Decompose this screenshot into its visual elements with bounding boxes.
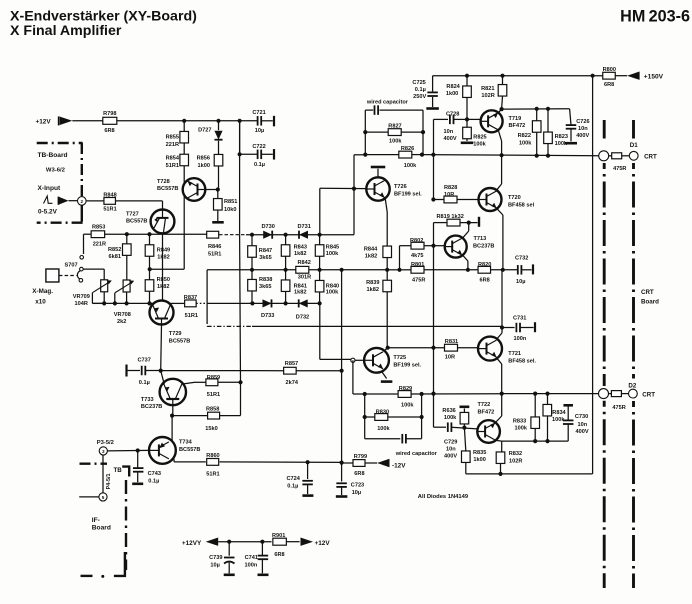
svg-text:400V: 400V xyxy=(576,133,589,139)
svg-text:100k: 100k xyxy=(326,290,339,296)
svg-text:BC557B: BC557B xyxy=(126,218,147,224)
svg-text:6R8: 6R8 xyxy=(274,552,284,558)
svg-text:102R: 102R xyxy=(481,93,494,99)
svg-text:R821: R821 xyxy=(481,86,494,92)
svg-text:HM 203-6: HM 203-6 xyxy=(620,8,690,26)
svg-text:X-Input: X-Input xyxy=(38,185,62,192)
svg-text:D731: D731 xyxy=(298,224,311,230)
svg-text:100n: 100n xyxy=(514,336,527,342)
svg-text:10µ: 10µ xyxy=(255,128,264,134)
svg-text:R833: R833 xyxy=(513,418,526,424)
svg-text:3: 3 xyxy=(102,449,105,454)
svg-text:T722: T722 xyxy=(478,402,491,408)
svg-text:R834: R834 xyxy=(552,410,566,416)
svg-text:T720: T720 xyxy=(508,195,521,201)
svg-text:6R8: 6R8 xyxy=(604,82,614,88)
svg-text:X Final Amplifier: X Final Amplifier xyxy=(10,23,122,39)
svg-text:R798: R798 xyxy=(103,111,116,117)
svg-text:R829: R829 xyxy=(399,386,412,392)
svg-text:R838: R838 xyxy=(259,277,272,283)
svg-text:1k00: 1k00 xyxy=(473,457,485,463)
svg-text:BF199 sel.: BF199 sel. xyxy=(393,363,421,369)
svg-text:T725: T725 xyxy=(393,355,406,361)
svg-text:R841: R841 xyxy=(294,283,307,289)
svg-text:475R: 475R xyxy=(412,277,425,283)
svg-text:R802: R802 xyxy=(410,238,423,244)
svg-text:BF458 sel: BF458 sel xyxy=(508,203,535,209)
svg-text:6R8: 6R8 xyxy=(354,471,364,477)
svg-text:10k0: 10k0 xyxy=(224,207,236,213)
svg-text:R822: R822 xyxy=(518,133,531,139)
svg-text:T713: T713 xyxy=(474,236,487,242)
svg-text:C722: C722 xyxy=(252,144,265,150)
svg-text:R831: R831 xyxy=(445,339,458,345)
svg-text:1k82: 1k82 xyxy=(157,255,169,261)
svg-text:475R: 475R xyxy=(612,405,625,411)
svg-text:100k: 100k xyxy=(404,163,417,169)
svg-text:C732: C732 xyxy=(515,256,528,262)
svg-text:R825: R825 xyxy=(473,135,486,141)
svg-text:10µ: 10µ xyxy=(210,563,219,569)
svg-text:+12VY: +12VY xyxy=(182,540,202,547)
svg-text:51R1: 51R1 xyxy=(185,313,198,319)
svg-text:10R: 10R xyxy=(445,355,455,361)
svg-text:104R: 104R xyxy=(75,301,88,307)
svg-text:0.1µ: 0.1µ xyxy=(287,484,298,490)
svg-text:R820: R820 xyxy=(478,262,491,268)
svg-text:BC237B: BC237B xyxy=(141,404,162,410)
svg-text:2: 2 xyxy=(81,199,84,204)
svg-text:W3-6/2: W3-6/2 xyxy=(46,167,66,173)
svg-text:C723: C723 xyxy=(351,482,364,488)
svg-text:10R: 10R xyxy=(444,192,454,198)
svg-text:51R1: 51R1 xyxy=(208,252,221,258)
svg-text:1k82: 1k82 xyxy=(365,254,377,260)
svg-text:15k0: 15k0 xyxy=(205,426,217,432)
svg-text:T729: T729 xyxy=(169,331,182,337)
svg-text:TB-Board: TB-Board xyxy=(38,152,68,159)
svg-text:wired capacitor: wired capacitor xyxy=(395,451,438,457)
svg-text:0.1µ: 0.1µ xyxy=(254,162,265,168)
svg-text:D727: D727 xyxy=(198,128,211,134)
svg-text:C730: C730 xyxy=(575,414,588,420)
svg-text:T726: T726 xyxy=(394,184,407,190)
svg-text:1k82: 1k82 xyxy=(367,287,379,293)
svg-text:T719: T719 xyxy=(509,116,522,122)
svg-text:100k: 100k xyxy=(401,402,414,408)
svg-text:Board: Board xyxy=(641,298,659,305)
svg-text:R849: R849 xyxy=(157,247,170,253)
svg-text:R801: R801 xyxy=(411,262,424,268)
svg-text:T733: T733 xyxy=(141,397,154,403)
svg-text:R636: R636 xyxy=(442,408,455,414)
svg-text:10µ: 10µ xyxy=(352,490,361,496)
svg-text:C729: C729 xyxy=(444,439,457,445)
svg-text:R859: R859 xyxy=(207,375,220,381)
svg-text:BF458 sel.: BF458 sel. xyxy=(508,359,536,365)
svg-text:TB: TB xyxy=(114,467,123,474)
svg-text:10n: 10n xyxy=(444,129,454,135)
svg-text:51R1: 51R1 xyxy=(166,163,179,169)
svg-text:R853: R853 xyxy=(92,224,105,230)
svg-text:4k75: 4k75 xyxy=(411,253,423,259)
svg-text:1k00: 1k00 xyxy=(198,163,210,169)
svg-text:R843: R843 xyxy=(294,245,307,251)
svg-text:C721: C721 xyxy=(252,110,265,116)
svg-text:10n: 10n xyxy=(578,422,588,428)
svg-text:R827: R827 xyxy=(388,123,401,129)
svg-text:R823: R823 xyxy=(555,134,568,140)
svg-text:R832: R832 xyxy=(509,451,522,457)
svg-text:D1: D1 xyxy=(630,142,638,149)
svg-text:BF472: BF472 xyxy=(478,409,495,415)
svg-text:3k65: 3k65 xyxy=(259,255,271,261)
svg-text:R852: R852 xyxy=(108,247,121,253)
svg-text:10µ: 10µ xyxy=(516,279,525,285)
svg-text:R842: R842 xyxy=(298,260,311,266)
svg-text:6k81: 6k81 xyxy=(109,254,121,260)
svg-text:6R8: 6R8 xyxy=(104,128,114,134)
svg-text:T734: T734 xyxy=(179,440,193,446)
svg-text:T728: T728 xyxy=(157,179,170,185)
svg-text:R826: R826 xyxy=(401,146,414,152)
svg-text:IF-: IF- xyxy=(92,517,100,524)
svg-text:400V: 400V xyxy=(444,453,457,459)
svg-text:CRT: CRT xyxy=(644,154,657,161)
svg-text:R847: R847 xyxy=(259,248,272,254)
svg-text:51R1: 51R1 xyxy=(207,392,220,398)
svg-text:-12V: -12V xyxy=(392,462,406,469)
svg-text:221R: 221R xyxy=(166,142,179,148)
svg-text:C725: C725 xyxy=(412,80,425,86)
svg-text:X-Mag.: X-Mag. xyxy=(32,288,53,295)
svg-text:221R: 221R xyxy=(93,242,106,248)
svg-text:2k74: 2k74 xyxy=(286,380,299,386)
svg-text:R830: R830 xyxy=(376,409,389,415)
svg-text:R844: R844 xyxy=(364,246,378,252)
svg-text:301R: 301R xyxy=(298,275,311,281)
svg-text:R850: R850 xyxy=(157,277,170,283)
svg-text:100k: 100k xyxy=(515,426,528,432)
svg-text:1k82: 1k82 xyxy=(294,290,306,296)
svg-text:6R8: 6R8 xyxy=(480,277,490,283)
svg-text:102R: 102R xyxy=(509,458,522,464)
svg-text:100n: 100n xyxy=(245,563,258,569)
svg-text:0.1µ: 0.1µ xyxy=(148,478,159,484)
svg-text:D733: D733 xyxy=(261,313,274,319)
svg-text:100k: 100k xyxy=(473,142,486,148)
svg-text:C739: C739 xyxy=(209,555,222,561)
svg-text:S707: S707 xyxy=(65,262,78,268)
svg-text:1k82: 1k82 xyxy=(157,284,169,290)
svg-text:C726: C726 xyxy=(576,119,589,125)
svg-text:D2: D2 xyxy=(628,382,636,389)
svg-text:C743: C743 xyxy=(148,471,161,477)
svg-text:R824: R824 xyxy=(446,84,460,90)
svg-text:100k: 100k xyxy=(377,426,390,432)
svg-text:100k: 100k xyxy=(519,140,532,146)
svg-text:R840: R840 xyxy=(326,283,339,289)
svg-text:D730: D730 xyxy=(262,224,275,230)
svg-text:475R: 475R xyxy=(613,166,626,172)
svg-text:CRT: CRT xyxy=(641,289,654,296)
svg-text:R800: R800 xyxy=(603,67,616,73)
svg-text:R860: R860 xyxy=(206,453,219,459)
svg-text:BC557B: BC557B xyxy=(157,186,178,192)
svg-text:1k00: 1k00 xyxy=(446,91,458,97)
svg-text:BF199 sel.: BF199 sel. xyxy=(394,191,422,197)
svg-text:100k: 100k xyxy=(444,415,457,421)
svg-text:C731: C731 xyxy=(513,316,526,322)
svg-text:1k82: 1k82 xyxy=(294,251,306,257)
svg-text:VR709: VR709 xyxy=(73,294,90,300)
svg-text:R839: R839 xyxy=(366,280,379,286)
svg-text:100k: 100k xyxy=(389,138,402,144)
svg-text:10n: 10n xyxy=(446,446,456,452)
svg-text:R828: R828 xyxy=(444,185,457,191)
svg-text:R856: R856 xyxy=(197,155,210,161)
svg-text:+150V: +150V xyxy=(644,74,664,81)
svg-text:T721: T721 xyxy=(508,351,521,357)
svg-text:R851: R851 xyxy=(224,199,237,205)
svg-text:0.1µ: 0.1µ xyxy=(139,380,150,386)
svg-text:R835: R835 xyxy=(473,450,486,456)
svg-text:x10: x10 xyxy=(35,298,46,305)
svg-text:VR708: VR708 xyxy=(114,312,131,318)
svg-text:2k2: 2k2 xyxy=(117,319,126,325)
svg-text:R854: R854 xyxy=(166,155,180,161)
svg-text:C728: C728 xyxy=(446,111,459,117)
svg-text:100k: 100k xyxy=(326,251,339,257)
svg-text:R799: R799 xyxy=(354,454,367,460)
svg-text:R848: R848 xyxy=(103,193,116,199)
svg-text:R855: R855 xyxy=(166,134,179,140)
svg-text:+12V: +12V xyxy=(315,540,331,547)
svg-text:250V: 250V xyxy=(413,94,426,100)
svg-text:10n: 10n xyxy=(578,126,588,132)
svg-text:R845: R845 xyxy=(326,245,339,251)
svg-text:0-5.2V: 0-5.2V xyxy=(38,208,58,215)
svg-text:R837: R837 xyxy=(184,295,197,301)
svg-text:C724: C724 xyxy=(287,476,301,482)
svg-text:X-Endverstärker (XY-Board): X-Endverstärker (XY-Board) xyxy=(10,8,197,24)
svg-text:C737: C737 xyxy=(138,358,151,364)
svg-text:R858: R858 xyxy=(206,407,219,413)
svg-text:D732: D732 xyxy=(296,314,309,320)
svg-text:T727: T727 xyxy=(126,211,139,217)
svg-text:R901: R901 xyxy=(272,533,285,539)
svg-text:CRT: CRT xyxy=(642,392,655,399)
svg-text:0.1µ: 0.1µ xyxy=(415,87,426,93)
svg-text:R846: R846 xyxy=(208,244,221,250)
svg-text:wired capacitor: wired capacitor xyxy=(366,99,409,105)
svg-text:+12V: +12V xyxy=(36,119,52,126)
svg-text:400V: 400V xyxy=(576,429,589,435)
svg-text:C741: C741 xyxy=(245,555,258,561)
svg-text:Board: Board xyxy=(92,524,111,531)
svg-text:3k65: 3k65 xyxy=(259,284,271,290)
svg-text:5: 5 xyxy=(102,495,105,500)
svg-text:R857: R857 xyxy=(285,361,298,367)
svg-text:BC557B: BC557B xyxy=(169,338,190,344)
svg-text:All Diodes 1N4149: All Diodes 1N4149 xyxy=(418,494,469,500)
svg-text:51R1: 51R1 xyxy=(206,472,219,478)
svg-text:400V: 400V xyxy=(444,136,457,142)
svg-text:BC557B: BC557B xyxy=(179,447,200,453)
svg-text:BC237B: BC237B xyxy=(473,243,494,249)
svg-text:BF472: BF472 xyxy=(509,123,526,129)
svg-text:P3-5/2: P3-5/2 xyxy=(97,440,114,446)
svg-text:51R1: 51R1 xyxy=(103,207,116,213)
svg-text:P4-5/1: P4-5/1 xyxy=(106,474,112,490)
